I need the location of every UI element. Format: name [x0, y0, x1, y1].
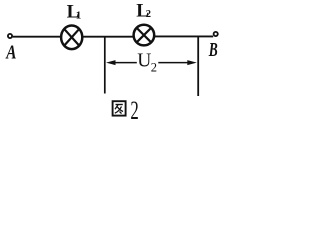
- wire L2 to B: [154, 35, 213, 37]
- svg-text:A: A: [5, 42, 17, 64]
- lamp L2: [134, 25, 155, 46]
- svg-text:U: U: [137, 51, 151, 72]
- wire L1 to L2: [84, 36, 134, 38]
- terminal B: [214, 32, 218, 36]
- lamp L1: [61, 26, 82, 50]
- terminal A: [8, 34, 12, 38]
- junction dropline left (node between L1 and L2): [104, 36, 106, 94]
- caption "图 2" : hand-drawn CJK glyph for 图: [113, 101, 126, 115]
- wire A to L1: [13, 36, 61, 38]
- svg-text:1: 1: [76, 10, 82, 22]
- dimension arrow right: [158, 60, 197, 65]
- dimension arrow left: [106, 60, 137, 65]
- svg-text:B: B: [208, 39, 218, 61]
- svg-text:2: 2: [130, 96, 138, 125]
- svg-text:2: 2: [151, 60, 157, 74]
- svg-text:2: 2: [146, 9, 151, 20]
- junction dropline right (node B side): [197, 36, 199, 96]
